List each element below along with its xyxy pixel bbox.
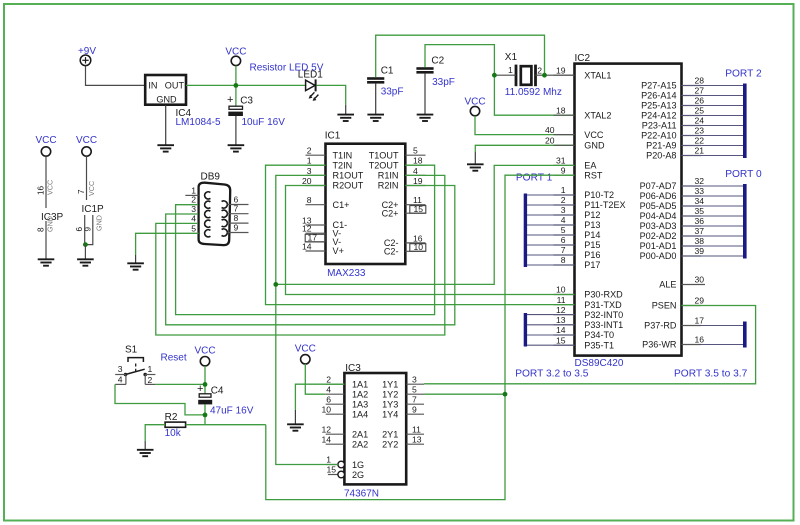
svg-text:IC1: IC1: [325, 131, 341, 142]
svg-text:P10-T2: P10-T2: [584, 190, 614, 200]
svg-text:P22-A10: P22-A10: [641, 131, 676, 141]
svg-text:Reset: Reset: [161, 352, 187, 363]
svg-text:1: 1: [307, 156, 312, 166]
svg-text:EA: EA: [584, 161, 597, 171]
svg-text:36: 36: [695, 216, 705, 226]
power symbol VCC (ic2): [464, 97, 485, 116]
svg-text:P24-A12: P24-A12: [641, 111, 676, 121]
IC2 pin 18 XTAL2: [554, 105, 612, 120]
svg-text:1: 1: [561, 185, 566, 195]
node RST/1Y2 junction: [503, 392, 508, 397]
IC2 pin 23 P22-A10: [641, 126, 704, 141]
IC2 pin 39 P00-AD0: [640, 246, 705, 261]
connector PORT 0: [682, 169, 762, 259]
svg-text:10uF 16V: 10uF 16V: [242, 117, 286, 128]
svg-text:5: 5: [191, 223, 196, 233]
svg-text:34: 34: [695, 196, 705, 206]
svg-text:4: 4: [118, 374, 123, 384]
DB9 pin 8 stub: [228, 213, 249, 223]
IC2 pin 32 P07-AD7: [640, 176, 705, 191]
svg-text:P16: P16: [584, 250, 600, 260]
IC2 pin 19 XTAL1: [554, 65, 612, 80]
ground (IC1P): [77, 259, 94, 265]
IC3 pin 10 1A4: [321, 404, 368, 419]
svg-text:IC3: IC3: [345, 363, 361, 374]
svg-text:P26-A14: P26-A14: [641, 91, 676, 101]
svg-text:R1IN: R1IN: [378, 171, 399, 181]
svg-text:PORT 0: PORT 0: [725, 169, 762, 180]
IC3 pin 9 1Y4: [382, 404, 424, 419]
svg-text:14: 14: [302, 242, 312, 252]
svg-text:P06-AD6: P06-AD6: [640, 191, 677, 201]
IC2 pin 8 P17: [554, 255, 601, 270]
ground (IC3P): [38, 259, 55, 265]
svg-text:P15: P15: [584, 240, 600, 250]
svg-text:31: 31: [556, 156, 566, 166]
svg-text:2: 2: [326, 374, 331, 384]
wire 1Y2 to RST net: [424, 393, 505, 395]
svg-text:9: 9: [412, 404, 417, 414]
svg-text:1A3: 1A3: [352, 399, 368, 409]
node EA/R1OUT junction: [273, 282, 278, 287]
node X1 pin2 junction: [542, 73, 547, 78]
svg-text:T1IN: T1IN: [333, 150, 353, 160]
power symbol VCC (ic3): [295, 344, 316, 364]
wire X1 pin2 stub to XTAL1: [535, 74, 574, 76]
power connector +9V: [78, 46, 96, 66]
svg-text:PORT 2: PORT 2: [725, 69, 762, 80]
IC1 pin 3 R1OUT: [306, 166, 364, 181]
svg-text:2Y1: 2Y1: [382, 429, 398, 439]
svg-text:P01-AD1: P01-AD1: [640, 241, 677, 251]
svg-text:GND: GND: [95, 215, 104, 231]
wire VCC to IC3 1A2: [305, 364, 325, 394]
svg-text:P02-AD2: P02-AD2: [640, 231, 677, 241]
svg-text:2: 2: [537, 66, 542, 76]
svg-text:P17: P17: [584, 260, 600, 270]
power symbol VCC (top rail): [225, 46, 246, 65]
svg-text:33pF: 33pF: [432, 77, 455, 88]
svg-text:R2IN: R2IN: [378, 181, 399, 191]
svg-text:6: 6: [326, 394, 331, 404]
svg-text:3: 3: [118, 364, 123, 374]
svg-text:10k: 10k: [165, 428, 182, 439]
IC1 pin 18 T2OUT: [369, 156, 426, 171]
IC2 pin 20 GND: [545, 136, 605, 151]
IC2 pin 14 P34-T0: [554, 325, 615, 340]
connector DB9: [199, 171, 231, 245]
svg-text:2A2: 2A2: [352, 439, 368, 449]
svg-text:8: 8: [307, 195, 312, 205]
svg-text:P03-AD3: P03-AD3: [640, 221, 677, 231]
svg-text:OUT: OUT: [165, 81, 185, 91]
svg-text:2: 2: [561, 195, 566, 205]
svg-text:XTAL2: XTAL2: [584, 110, 611, 120]
svg-text:1A2: 1A2: [352, 389, 368, 399]
svg-text:R1OUT: R1OUT: [333, 171, 364, 181]
svg-text:DS89C420: DS89C420: [575, 358, 624, 369]
svg-text:30: 30: [695, 275, 705, 285]
capacitor C2 33pF: [416, 56, 454, 88]
node X1 pin1 junction: [492, 73, 497, 78]
wire VCC to node: [235, 66, 237, 106]
svg-text:P12: P12: [584, 210, 600, 220]
IC2 pin 10 P30-RXD: [554, 285, 624, 300]
svg-text:13: 13: [556, 315, 566, 325]
IC2 pin 7 P16: [554, 245, 601, 260]
svg-text:21: 21: [695, 146, 705, 156]
IC1 pin 13 C1-: [302, 216, 347, 231]
IC1P pin 6 GND wire: [75, 215, 85, 245]
svg-text:4: 4: [326, 384, 331, 394]
IC1 pin 10 C2-: [384, 242, 426, 256]
svg-text:14: 14: [321, 434, 331, 444]
wire C1 top to X1 pin2 / XTAL1: [376, 35, 545, 77]
wire R2 right / reset net: [186, 424, 266, 426]
svg-text:P34-T0: P34-T0: [584, 330, 614, 340]
svg-text:16: 16: [695, 335, 705, 345]
svg-text:3: 3: [191, 204, 196, 214]
wire R2 ground stub: [144, 441, 146, 450]
connector PORT 1: [516, 173, 575, 267]
svg-text:18: 18: [413, 156, 423, 166]
IC2 pin 24 P23-A11: [642, 116, 704, 131]
svg-text:2: 2: [307, 146, 312, 156]
IC1 pin 5 T1OUT: [369, 146, 426, 161]
svg-text:P37-RD: P37-RD: [644, 321, 677, 331]
svg-text:LED1: LED1: [298, 70, 323, 81]
svg-text:8: 8: [561, 255, 566, 265]
svg-text:XTAL1: XTAL1: [584, 70, 611, 80]
svg-text:P05-AD5: P05-AD5: [640, 201, 677, 211]
svg-text:3: 3: [561, 205, 566, 215]
wire IC1P to ground: [84, 245, 86, 259]
svg-text:2A1: 2A1: [352, 429, 368, 439]
wire P30-RXD to R2OUT: [286, 186, 575, 295]
wire P31-TXD to T2IN: [266, 165, 575, 304]
IC3 pin 2 1A1: [326, 374, 368, 389]
IC2 pin 35 P04-AD4: [640, 206, 705, 221]
svg-text:C2+: C2+: [382, 208, 399, 218]
svg-text:2G: 2G: [352, 470, 364, 480]
svg-text:VCC: VCC: [35, 135, 56, 146]
wire C2 top to X1 pin1 / XTAL2: [425, 45, 575, 116]
svg-text:C2: C2: [431, 56, 444, 67]
svg-text:26: 26: [695, 96, 705, 106]
ground (DB9 pin5): [127, 263, 144, 269]
svg-text:1: 1: [508, 65, 513, 75]
IC1P pin 7 VCC wire: [77, 156, 96, 200]
wire DB9 pin5 to ground: [136, 233, 199, 255]
IC2 pin 2 P11-T2EX: [554, 195, 626, 210]
IC1 pin 4 R1IN: [378, 166, 426, 181]
IC2 pin 4 P13: [554, 215, 601, 230]
svg-text:3: 3: [307, 166, 312, 176]
wire C1 bottom to ground: [375, 84, 377, 115]
svg-text:P32-INT0: P32-INT0: [584, 310, 623, 320]
svg-text:P23-A11: P23-A11: [642, 121, 677, 131]
svg-text:ALE: ALE: [659, 280, 676, 290]
svg-text:1Y1: 1Y1: [382, 379, 398, 389]
svg-text:1: 1: [326, 455, 331, 465]
svg-text:P33-INT1: P33-INT1: [584, 320, 623, 330]
wire C3 to ground: [235, 116, 237, 145]
svg-text:P00-AD0: P00-AD0: [640, 251, 677, 261]
IC2 pin 21 P20-A8: [646, 146, 704, 161]
svg-text:P35-T1: P35-T1: [584, 340, 614, 350]
svg-text:T2IN: T2IN: [333, 160, 353, 170]
IC1 pin 20 R2OUT: [302, 176, 364, 191]
svg-text:23: 23: [695, 126, 705, 136]
DB9 contact pin 5: [205, 230, 211, 237]
svg-text:GND: GND: [156, 94, 177, 104]
svg-text:19: 19: [413, 176, 423, 186]
svg-text:RST: RST: [584, 170, 603, 180]
IC3P pin 8 GND wire: [37, 216, 55, 259]
svg-text:15: 15: [556, 335, 566, 345]
svg-text:1Y2: 1Y2: [382, 389, 398, 399]
svg-text:3: 3: [412, 374, 417, 384]
svg-text:1: 1: [148, 364, 153, 374]
svg-text:1G: 1G: [352, 460, 364, 470]
IC2 pin 27 P26-A14: [641, 86, 704, 101]
wire DB9 pin2 to T2OUT: [176, 165, 435, 314]
IC2 pin 5 P14: [554, 225, 601, 240]
wire LED cathode to ground: [317, 85, 346, 105]
IC3 pin 3 1Y1: [382, 374, 424, 389]
wire IC2 pin 20 GND to ground: [475, 145, 574, 152]
svg-text:7: 7: [561, 245, 566, 255]
IC1 pin 8 C1+: [306, 195, 350, 210]
svg-text:P13: P13: [584, 220, 600, 230]
IC3 pin 12 2A1: [321, 424, 368, 439]
connector PORT 3.5 to 3.7: [674, 322, 748, 380]
svg-text:C3: C3: [240, 96, 253, 107]
IC2 pin 25 P24-A12: [641, 106, 704, 121]
svg-text:32: 32: [695, 176, 705, 186]
wire DB9 pin4 to R1IN: [156, 175, 445, 335]
IC2 pin 11 P31-TXD: [554, 295, 623, 310]
IC1 pin 19 R2IN: [378, 176, 426, 191]
svg-text:VCC: VCC: [46, 180, 55, 195]
svg-text:10: 10: [414, 242, 424, 252]
wire EA net (IC2 pin31 to R1OUT vertical): [276, 165, 575, 284]
wire S1 pins 3/4 to C4 bottom node: [115, 384, 205, 415]
IC2 pin 12 P32-INT0: [554, 305, 624, 320]
svg-text:40: 40: [545, 125, 555, 135]
ground (under R2): [137, 450, 154, 456]
svg-text:5: 5: [561, 225, 566, 235]
DB9 contact pin 8: [222, 220, 228, 227]
svg-text:1A4: 1A4: [352, 409, 368, 419]
svg-text:DB9: DB9: [201, 171, 221, 182]
DB9 contact pin 2: [205, 201, 211, 208]
ground (under C2): [417, 115, 434, 121]
svg-text:18: 18: [556, 105, 566, 115]
svg-text:12: 12: [321, 424, 331, 434]
IC2 pin 1 P10-T2: [554, 185, 615, 200]
IC3 pin 15 2G: [326, 465, 364, 480]
svg-text:15: 15: [326, 465, 336, 475]
svg-text:VCC: VCC: [87, 181, 96, 196]
wire IC4 OUT to VCC node and LED: [186, 84, 306, 86]
svg-text:P25-A13: P25-A13: [641, 101, 676, 111]
svg-text:4: 4: [561, 215, 566, 225]
svg-text:5: 5: [413, 146, 418, 156]
svg-text:P04-AD4: P04-AD4: [640, 211, 677, 221]
svg-text:1A1: 1A1: [352, 379, 368, 389]
node VCC/OUT/C3/LED junction: [234, 83, 239, 88]
DB9 pin 7 stub: [228, 204, 249, 214]
IC1 pin 12 V-: [302, 224, 341, 239]
connector PORT 3.2 to 3.5: [515, 313, 589, 380]
wire VCC to C4: [204, 366, 206, 394]
svg-text:27: 27: [695, 86, 705, 96]
IC3 pin 6 1A3: [326, 394, 368, 409]
IC1 pin 14 V+: [302, 242, 344, 257]
svg-text:17: 17: [695, 316, 705, 326]
wire +9V to IC4 IN: [86, 66, 146, 86]
IC2 pin 40 VCC: [545, 125, 604, 140]
node S1/C4 junction: [203, 382, 208, 387]
svg-text:33: 33: [695, 186, 705, 196]
svg-text:11: 11: [412, 424, 421, 434]
DB9 pin 9 stub: [228, 223, 249, 233]
svg-text:VCC: VCC: [584, 130, 604, 140]
IC2 pin 33 P06-AD6: [640, 186, 705, 201]
IC2 pin 16 P36-WR: [642, 335, 704, 350]
svg-text:24: 24: [695, 116, 705, 126]
svg-text:GND: GND: [46, 216, 55, 232]
IC2 pin 9 RST: [554, 165, 603, 180]
svg-text:P30-RXD: P30-RXD: [584, 290, 623, 300]
svg-text:VCC: VCC: [76, 135, 97, 146]
wire DB9 pin5 ground stub: [135, 255, 137, 263]
wire X1 pin1 stub: [496, 74, 516, 76]
svg-text:+9V: +9V: [78, 46, 96, 57]
svg-text:9: 9: [84, 227, 93, 232]
capacitor C1 33pF: [367, 65, 403, 97]
svg-text:C2-: C2-: [384, 247, 399, 257]
IC3 pin 4 1A2: [326, 384, 368, 399]
svg-text:20: 20: [545, 136, 555, 146]
power symbol VCC (ic3p): [35, 135, 56, 156]
IC2 pin 26 P25-A13: [641, 96, 704, 111]
IC2 pin 13 P33-INT1: [554, 315, 624, 330]
svg-text:35: 35: [695, 206, 705, 216]
wire IC4 GND to ground: [165, 105, 167, 145]
DB9 contact pin 9: [222, 229, 228, 236]
svg-text:11: 11: [557, 295, 566, 305]
IC2 pin 30 ALE: [659, 275, 705, 290]
svg-text:29: 29: [695, 296, 705, 306]
wire DB9 pin3 to R2IN: [166, 186, 455, 325]
svg-text:25: 25: [695, 106, 705, 116]
wire C2 bottom to ground: [424, 74, 426, 115]
svg-text:X1: X1: [505, 52, 518, 63]
svg-text:P20-A8: P20-A8: [646, 151, 676, 161]
svg-text:P21-A9: P21-A9: [646, 141, 676, 151]
IC1 pin 2 T1IN: [306, 146, 353, 161]
svg-text:4: 4: [413, 166, 418, 176]
svg-text:22: 22: [695, 136, 705, 146]
svg-text:14: 14: [556, 325, 566, 335]
ground (under C1): [367, 115, 384, 121]
svg-text:MAX233: MAX233: [327, 268, 366, 279]
svg-text:VCC: VCC: [464, 97, 485, 108]
svg-text:28: 28: [695, 76, 705, 86]
wire IC2 GND ground stub: [474, 152, 476, 164]
svg-text:IC1P: IC1P: [82, 204, 105, 215]
svg-text:P27-A15: P27-A15: [641, 81, 676, 91]
wire IC3 1A1 ground stub: [294, 410, 296, 424]
DB9 contact pin 1: [205, 192, 211, 199]
IC2 pin 36 P03-AD3: [640, 216, 705, 231]
svg-text:C4: C4: [211, 385, 224, 396]
svg-text:16: 16: [37, 185, 46, 195]
svg-text:13: 13: [412, 434, 422, 444]
svg-text:1Y3: 1Y3: [382, 399, 398, 409]
svg-text:5: 5: [412, 384, 417, 394]
IC1 pin 15 C2+: [382, 204, 426, 218]
buffer IC3 74367N: [344, 363, 406, 499]
svg-text:8: 8: [37, 227, 46, 232]
svg-text:IC2: IC2: [575, 53, 591, 64]
ground (under IC2 GND pin): [467, 164, 484, 170]
DB9 contact pin 7: [222, 210, 228, 217]
svg-text:C1: C1: [381, 65, 394, 76]
svg-text:15: 15: [414, 204, 424, 214]
svg-text:47uF 16V: 47uF 16V: [210, 405, 254, 416]
svg-text:37: 37: [695, 226, 705, 236]
connector PORT 2: [682, 69, 762, 158]
ground (under C3): [228, 145, 245, 151]
IC2 pin 38 P01-AD1: [640, 236, 705, 251]
svg-text:1Y4: 1Y4: [382, 409, 398, 419]
svg-text:2: 2: [148, 375, 153, 385]
wire RST net (IC2 pin9 down to reset node): [266, 175, 575, 499]
IC2 pin 3 P12: [554, 205, 601, 220]
LED LED1: [250, 62, 324, 101]
svg-text:VCC: VCC: [194, 346, 215, 357]
IC3 pin 13 2Y2: [382, 434, 424, 449]
IC3 pin 5 1Y2: [382, 384, 424, 399]
svg-text:P31-TXD: P31-TXD: [584, 300, 622, 310]
svg-text:PORT 3.5 to 3.7: PORT 3.5 to 3.7: [674, 369, 748, 380]
IC2 pin 6 P15: [554, 235, 601, 250]
DB9 contact pin 3: [205, 211, 211, 218]
svg-text:4: 4: [191, 214, 196, 224]
svg-text:C1+: C1+: [333, 200, 350, 210]
svg-text:9: 9: [561, 165, 566, 175]
RS232 driver IC1 MAX233: [325, 131, 406, 279]
svg-text:38: 38: [695, 236, 705, 246]
svg-text:T1OUT: T1OUT: [369, 150, 399, 160]
svg-text:+: +: [227, 94, 233, 106]
ground (under IC3 1A1): [287, 424, 304, 430]
svg-text:2Y2: 2Y2: [382, 439, 398, 449]
DB9 pin 1 stub: [185, 185, 198, 195]
capacitor C3 10uF 16V: [227, 94, 285, 128]
IC2 pin 37 P02-AD2: [640, 226, 705, 241]
resistor R2 10k: [165, 412, 186, 439]
wire R2 left to ground: [145, 425, 165, 441]
IC2 pin 34 P05-AD5: [640, 196, 705, 211]
svg-text:19: 19: [556, 65, 566, 75]
svg-text:T2OUT: T2OUT: [369, 160, 399, 170]
IC3 pin 1 1G: [326, 455, 364, 470]
node IC1P ground junction: [83, 242, 88, 247]
